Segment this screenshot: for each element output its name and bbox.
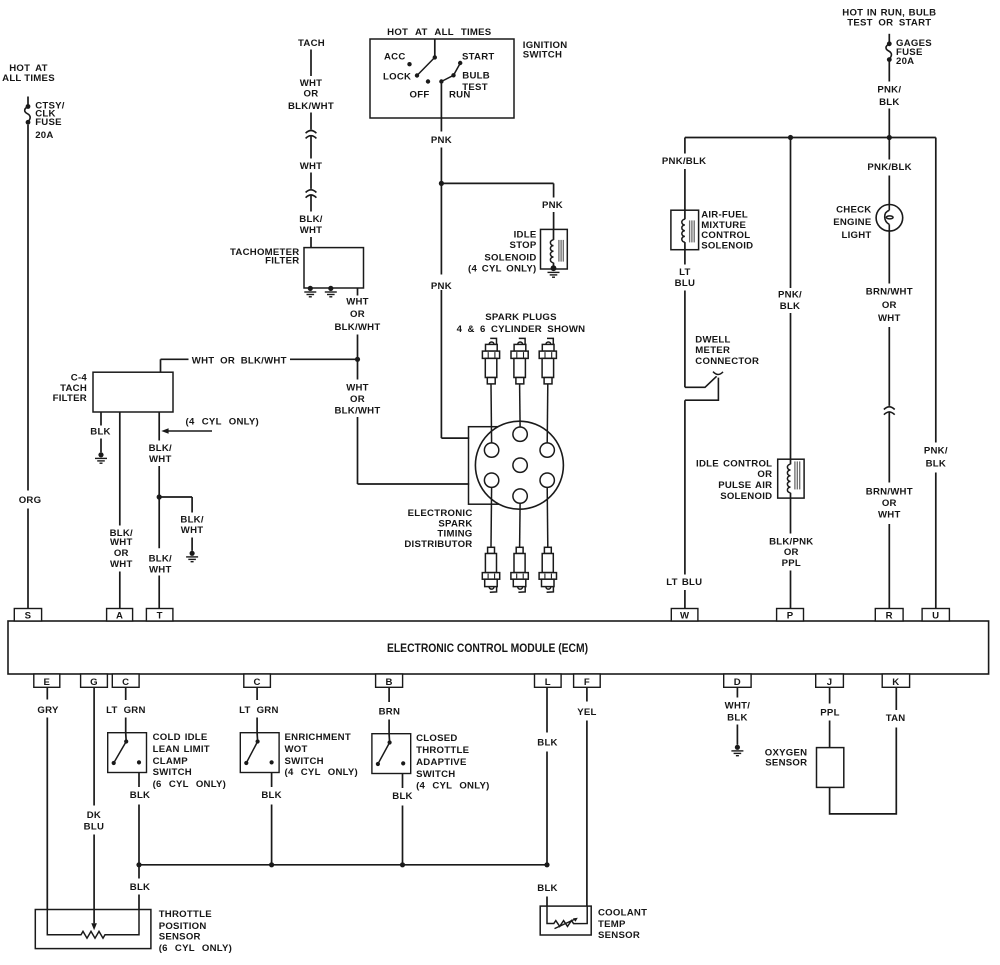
svg-text:BLK/WHT: BLK/WHT <box>335 322 381 333</box>
label PNK/BLK (idle control) <box>778 289 802 312</box>
svg-text:BLU: BLU <box>84 821 104 832</box>
svg-text:P: P <box>787 610 794 621</box>
label PNK (lower) <box>431 281 452 292</box>
wire BLK ground rail <box>139 864 547 866</box>
node TACH <box>298 38 325 49</box>
label BLK (C-4 ground) <box>90 427 110 438</box>
wire PNK/BLK fuse to rail <box>888 60 890 138</box>
note (4 CYL ONLY) with arrow <box>161 416 259 433</box>
node HOT AT ALL TIMES (battery feed, left) <box>2 63 55 84</box>
label PNK/BLK (fuse) <box>877 85 901 108</box>
ECM box <box>8 621 989 674</box>
svg-text:BLU: BLU <box>675 278 695 289</box>
coolant sensor thermistor <box>547 906 587 929</box>
svg-text:SPARK PLUGS: SPARK PLUGS <box>485 312 557 323</box>
svg-text:PPL: PPL <box>782 558 801 569</box>
ECM pin G (bottom 1) <box>81 674 108 688</box>
label YEL <box>577 707 596 718</box>
svg-text:HOT AT: HOT AT <box>9 63 48 74</box>
svg-text:SWITCH: SWITCH <box>416 769 455 780</box>
wire LT GRN pin C to WOT switch <box>256 687 258 732</box>
distributor body rect <box>469 427 519 505</box>
svg-text:WHT OR BLK/WHT: WHT OR BLK/WHT <box>192 355 287 366</box>
svg-text:WHT: WHT <box>878 313 901 324</box>
svg-text:CONTROL: CONTROL <box>701 230 750 241</box>
wire TAN oxygen sensor to ECM pin K <box>830 687 897 814</box>
svg-text:WHT: WHT <box>346 383 369 394</box>
spark plug wires (bottom) <box>491 487 548 547</box>
C-4 tach filter box <box>93 372 173 412</box>
ECM pin T (top) <box>146 609 173 622</box>
label TACHOMETER FILTER <box>230 247 299 267</box>
svg-text:BLK/: BLK/ <box>149 443 172 454</box>
wire BLK closed throttle to rail <box>402 774 404 865</box>
wire BLK (C-4 to ground) <box>100 412 102 452</box>
svg-text:SOLENOID: SOLENOID <box>484 253 536 264</box>
svg-text:G: G <box>90 677 98 688</box>
svg-text:BLK: BLK <box>90 427 110 438</box>
wire BRN/WHT OR WHT to ECM pin R <box>888 231 890 608</box>
svg-text:POSITION: POSITION <box>159 921 207 932</box>
label WHT <box>300 161 323 172</box>
svg-text:U: U <box>932 610 939 621</box>
label TEST <box>462 82 488 93</box>
svg-text:ENRICHMENT: ENRICHMENT <box>285 732 351 743</box>
label LT GRN (cold idle) <box>106 705 146 716</box>
label IGNITION SWITCH <box>523 40 568 61</box>
label ELECTRONIC CONTROL MODULE (ECM) <box>387 641 588 655</box>
label PNK/BLK (air-fuel) <box>662 156 706 167</box>
label PNK (branch) <box>542 200 563 211</box>
dwell meter connector <box>685 372 723 401</box>
svg-text:BLK: BLK <box>879 97 899 108</box>
svg-text:WOT: WOT <box>285 744 308 755</box>
label IDLE STOP SOLENOID (4 CYL ONLY) <box>468 229 537 274</box>
ECM pin S (top) <box>14 609 41 622</box>
svg-text:SWITCH: SWITCH <box>285 756 324 767</box>
label DWELL METER CONNECTOR <box>695 334 759 367</box>
fuse CTSY/CLK FUSE 20A <box>25 97 31 125</box>
svg-text:STOP: STOP <box>510 240 537 251</box>
wire DK BLU pin G to TPS wiper <box>93 687 95 923</box>
svg-text:BLK: BLK <box>261 790 281 801</box>
closed throttle adaptive switch <box>372 734 411 774</box>
idle stop solenoid box <box>541 229 568 269</box>
junction dot (PNK) <box>439 181 444 186</box>
ground (tach filter right) <box>325 286 337 297</box>
svg-text:PULSE AIR: PULSE AIR <box>718 480 772 491</box>
wire PNK ignition to distributor <box>441 82 469 439</box>
svg-text:LT GRN: LT GRN <box>106 705 146 716</box>
svg-text:PNK/: PNK/ <box>877 85 901 96</box>
svg-text:ELECTRONIC: ELECTRONIC <box>408 508 473 519</box>
idle control solenoid coil <box>787 459 799 498</box>
arrowhead DK BLU wiper <box>91 923 97 930</box>
svg-text:BLK: BLK <box>926 458 946 469</box>
label LOCK <box>383 71 411 82</box>
svg-text:METER: METER <box>695 345 730 356</box>
label ORG <box>19 495 42 506</box>
wire PNK branch to idle stop solenoid <box>441 183 553 229</box>
wire WHT OR BLK/WHT to distributor <box>358 359 470 484</box>
svg-text:TEMP: TEMP <box>598 919 626 930</box>
svg-text:W: W <box>680 610 690 621</box>
svg-text:BRN/WHT: BRN/WHT <box>866 486 913 497</box>
svg-text:LOCK: LOCK <box>383 71 411 82</box>
wire WHT from filter to rail <box>357 288 359 359</box>
label ENRICHMENT WOT SWITCH (4 CYL ONLY) <box>285 732 358 778</box>
svg-text:PNK: PNK <box>431 135 452 146</box>
svg-text:IDLE CONTROL: IDLE CONTROL <box>696 458 772 469</box>
svg-text:CONNECTOR: CONNECTOR <box>695 356 759 367</box>
svg-text:OR: OR <box>350 309 365 320</box>
svg-text:LT GRN: LT GRN <box>239 705 279 716</box>
ground (branch) <box>186 551 198 562</box>
svg-text:FUSE: FUSE <box>35 117 62 128</box>
junction dot (cold idle) <box>136 862 141 867</box>
wire BRN pin B to closed throttle switch <box>388 687 390 733</box>
wire LT BLU to dwell connector <box>684 250 686 388</box>
svg-text:PNK/BLK: PNK/BLK <box>662 156 706 167</box>
svg-text:SOLENOID: SOLENOID <box>701 241 753 252</box>
svg-text:BLK: BLK <box>392 791 412 802</box>
svg-text:4 & 6 CYLINDER SHOWN: 4 & 6 CYLINDER SHOWN <box>457 324 586 335</box>
svg-text:CLAMP: CLAMP <box>153 756 189 767</box>
throttle position sensor box <box>35 910 151 949</box>
wire TACH to tachometer filter <box>310 50 312 248</box>
svg-text:BLK/: BLK/ <box>149 553 172 564</box>
label BLK/PNK OR PPL <box>769 536 813 569</box>
label COLD IDLE LEAN LIMIT CLAMP SWITCH (6 CYL ONLY) <box>153 732 226 790</box>
svg-text:B: B <box>386 677 393 688</box>
wire BLK WOT to rail <box>271 773 273 865</box>
inline connector (tach upper) <box>306 131 317 139</box>
distributor cap circle <box>475 421 563 509</box>
coolant temp sensor box <box>540 906 591 935</box>
svg-text:BRN/WHT: BRN/WHT <box>866 287 913 298</box>
svg-text:BLK/WHT: BLK/WHT <box>335 405 381 416</box>
svg-text:BLK: BLK <box>727 713 747 724</box>
air-fuel solenoid coil <box>682 210 694 250</box>
svg-text:PNK/: PNK/ <box>924 445 948 456</box>
ECM pin L (bottom 5) <box>535 674 562 688</box>
svg-text:BLK: BLK <box>537 883 557 894</box>
svg-text:(4 CYL ONLY): (4 CYL ONLY) <box>186 416 259 427</box>
svg-text:WHT: WHT <box>878 509 901 520</box>
svg-text:WHT: WHT <box>110 559 133 570</box>
ground (tach filter left) <box>304 286 316 297</box>
svg-text:OR: OR <box>757 469 772 480</box>
wire LT GRN pin C to cold idle switch <box>125 687 127 732</box>
svg-text:BLK: BLK <box>780 301 800 312</box>
spark plug 2 (top middle) <box>511 338 528 384</box>
label WHT OR BLK/WHT (below filter) <box>335 297 381 333</box>
distributor towers <box>484 427 554 503</box>
wire rail PNK/BLK <box>685 137 936 139</box>
spark plug 6 (bottom right) <box>539 547 556 592</box>
label BLK/WHT (lower) <box>149 553 172 575</box>
air-fuel mixture control solenoid box <box>671 210 699 250</box>
ECM pin D (bottom 7) <box>724 674 751 688</box>
label AIR-FUEL MIXTURE CONTROL SOLENOID <box>701 209 753 251</box>
svg-text:WHT: WHT <box>300 225 323 236</box>
svg-text:20A: 20A <box>896 56 914 67</box>
label PNK/BLK (pin U) <box>924 445 948 469</box>
svg-text:ENGINE: ENGINE <box>833 217 872 228</box>
svg-text:E: E <box>43 677 50 688</box>
svg-text:WHT: WHT <box>300 161 323 172</box>
svg-text:OR: OR <box>882 300 897 311</box>
svg-text:S: S <box>25 610 32 621</box>
label CLOSED THROTTLE ADAPTIVE SWITCH (4 CYL ONLY) <box>416 733 489 791</box>
label BLK/WHT (tach lower) <box>299 214 322 236</box>
svg-text:SWITCH: SWITCH <box>153 767 192 778</box>
label BLK (rail to TPS) <box>130 882 150 893</box>
wire BLK/WHT OR WHT to ECM pin A <box>119 412 121 609</box>
wire GRY pin E to TPS <box>46 687 48 909</box>
ECM pin E (bottom 0) <box>34 674 60 688</box>
svg-text:FILTER: FILTER <box>265 256 299 267</box>
label ELECTRONIC SPARK TIMING DISTRIBUTOR <box>404 508 472 550</box>
idle stop solenoid coil <box>550 229 563 266</box>
svg-text:BLK/: BLK/ <box>299 214 322 225</box>
enrichment WOT switch <box>240 733 279 773</box>
wire PNK/BLK to ECM pin U <box>935 138 937 609</box>
wire branch to ground <box>159 497 192 551</box>
svg-text:WHT: WHT <box>110 537 133 548</box>
node HOT AT ALL TIMES (ignition) <box>387 27 492 38</box>
label BRN/WHT OR WHT (lower) <box>866 486 913 520</box>
ECM pin F (bottom 6) <box>574 674 601 688</box>
wire PNK/BLK to idle control solenoid <box>790 138 792 460</box>
label WHT OR BLK/WHT (to distributor) <box>335 383 381 417</box>
label CHECK ENGINE LIGHT <box>833 205 872 241</box>
label THROTTLE POSITION SENSOR (6 CYL ONLY) <box>159 909 232 954</box>
wire PNK/BLK to check engine light <box>888 138 890 205</box>
ignition switch internals <box>407 39 462 84</box>
wire BLK cold idle to rail <box>138 773 140 865</box>
ignition switch box <box>370 39 514 118</box>
label SPARK PLUGS 4 & 6 CYLINDER SHOWN <box>457 312 586 335</box>
svg-text:TIMING: TIMING <box>437 529 472 540</box>
spark plug 4 (bottom left) <box>482 547 499 592</box>
svg-text:(4 CYL ONLY): (4 CYL ONLY) <box>285 767 358 778</box>
label LT BLU (upper) <box>675 267 695 289</box>
svg-text:TACH: TACH <box>298 38 325 49</box>
svg-text:(6 CYL ONLY): (6 CYL ONLY) <box>153 779 226 790</box>
svg-text:OR: OR <box>882 498 897 509</box>
svg-text:SENSOR: SENSOR <box>159 932 201 943</box>
svg-text:THROTTLE: THROTTLE <box>416 745 470 756</box>
svg-text:L: L <box>545 677 551 688</box>
svg-text:ORG: ORG <box>19 495 42 506</box>
label GAGES FUSE 20A <box>896 38 932 67</box>
label BULB <box>462 71 490 82</box>
wire rail to C-4 filter <box>160 359 162 372</box>
node HOT IN RUN, BULB TEST OR START <box>842 8 936 29</box>
svg-text:SWITCH: SWITCH <box>523 49 562 60</box>
label CTSY/CLK FUSE 20A <box>35 100 65 141</box>
svg-text:LT: LT <box>679 267 691 278</box>
junction dot (coolant) <box>544 862 549 867</box>
ECM pin J (bottom 8) <box>816 674 844 688</box>
label BLK (closed throttle) <box>392 791 412 802</box>
inline connector (BRN/WHT) <box>884 407 895 415</box>
svg-text:OR: OR <box>304 89 319 100</box>
svg-text:DWELL: DWELL <box>695 334 730 345</box>
svg-text:DISTRIBUTOR: DISTRIBUTOR <box>404 539 472 550</box>
wire PNK/BLK to air-fuel solenoid <box>684 138 686 211</box>
label BLK (WOT) <box>261 790 281 801</box>
svg-text:C: C <box>254 677 261 688</box>
label BLK (coolant) <box>537 883 557 894</box>
svg-text:COOLANT: COOLANT <box>598 908 647 919</box>
svg-text:START: START <box>462 52 495 63</box>
ground (C-4) <box>95 452 107 463</box>
wire BLK rail to TPS <box>138 865 140 910</box>
svg-text:WHT: WHT <box>346 297 369 308</box>
ECM pin R (top) <box>875 609 903 622</box>
ECM pin A (top) <box>107 609 133 622</box>
junction dot (rail P) <box>788 135 793 140</box>
svg-text:LEAN LIMIT: LEAN LIMIT <box>153 744 210 755</box>
label LT BLU (lower) <box>666 577 702 588</box>
svg-text:SOLENOID: SOLENOID <box>720 491 772 502</box>
wire BLK/PNK OR PPL to ECM pin P <box>790 498 792 608</box>
junction dot (BLK/WHT branch) <box>157 494 162 499</box>
svg-text:J: J <box>827 677 833 688</box>
svg-text:D: D <box>734 677 741 688</box>
svg-text:AIR-FUEL: AIR-FUEL <box>701 209 748 220</box>
label BRN <box>379 707 401 718</box>
svg-text:COLD IDLE: COLD IDLE <box>153 732 208 743</box>
svg-text:20A: 20A <box>35 130 53 141</box>
fuse GAGES FUSE 20A <box>886 34 892 62</box>
svg-text:HOT AT ALL TIMES: HOT AT ALL TIMES <box>387 27 492 38</box>
spark plug 1 (top left) <box>482 338 499 384</box>
svg-text:WHT: WHT <box>149 565 172 576</box>
label WHT/BLK <box>725 701 751 724</box>
wire YEL pin F to coolant sensor <box>586 687 588 906</box>
label DK BLU <box>84 810 104 832</box>
label START <box>462 52 495 63</box>
spark plug 3 (top right) <box>539 338 556 384</box>
svg-text:SENSOR: SENSOR <box>765 758 807 769</box>
ECM pin C (bottom 2) <box>112 674 139 688</box>
svg-text:K: K <box>892 677 899 688</box>
label BLK/WHT OR WHT <box>110 528 133 570</box>
ECM pin U (top) <box>922 609 949 622</box>
svg-text:FILTER: FILTER <box>53 393 87 404</box>
wire rail WHT OR BLK/WHT <box>161 358 358 360</box>
label OXYGEN SENSOR <box>765 747 808 768</box>
svg-text:RUN: RUN <box>449 90 471 101</box>
label RUN <box>449 90 471 101</box>
svg-text:OR: OR <box>114 548 129 559</box>
label ACC <box>384 51 406 62</box>
spark plug wires (top) <box>491 384 548 443</box>
wire BLK pin L to coolant sensor <box>546 687 548 906</box>
svg-text:LT BLU: LT BLU <box>666 577 702 588</box>
svg-text:PNK: PNK <box>431 281 452 292</box>
ECM pin B (bottom 4) <box>376 674 403 688</box>
label BLK/WHT (upper) <box>149 443 172 465</box>
ECM pin K (bottom 9) <box>882 674 909 688</box>
label BLK (pin L) <box>537 738 557 749</box>
idle control solenoid box <box>778 459 804 498</box>
svg-text:TEST OR START: TEST OR START <box>847 18 931 29</box>
ground (idle stop) <box>548 265 560 277</box>
svg-text:R: R <box>886 610 893 621</box>
wire BLK/WHT to ECM pin T <box>158 412 160 609</box>
svg-text:WHT/: WHT/ <box>725 701 751 712</box>
label C-4 TACH FILTER <box>53 372 88 404</box>
label TAN <box>886 713 906 724</box>
ground (pin D) <box>731 745 743 756</box>
svg-text:CHECK: CHECK <box>836 205 871 216</box>
ECM pin C (bottom 3) <box>244 674 271 688</box>
svg-text:PNK/: PNK/ <box>778 289 802 300</box>
label BLK (cold idle) <box>130 790 150 801</box>
svg-text:C-4: C-4 <box>71 372 88 383</box>
svg-text:PPL: PPL <box>820 707 839 718</box>
svg-text:BLK: BLK <box>130 882 150 893</box>
check engine light bulb <box>876 205 903 232</box>
svg-text:OR: OR <box>350 394 365 405</box>
label WHT OR BLK/WHT (tach top) <box>288 78 334 112</box>
svg-text:OFF: OFF <box>410 90 430 101</box>
svg-text:(6 CYL ONLY): (6 CYL ONLY) <box>159 943 232 954</box>
svg-text:CLOSED: CLOSED <box>416 733 457 744</box>
ECM pin W (top) <box>671 609 698 622</box>
junction dot (rail/tach) <box>355 357 360 362</box>
svg-text:T: T <box>157 610 163 621</box>
label GRY <box>37 705 59 716</box>
label IDLE CONTROL OR PULSE AIR SOLENOID <box>696 458 772 502</box>
svg-text:BLK: BLK <box>130 790 150 801</box>
label COOLANT TEMP SENSOR <box>598 908 647 941</box>
svg-text:WHT: WHT <box>181 525 204 536</box>
cold idle lean limit clamp switch <box>108 733 147 773</box>
svg-text:TAN: TAN <box>886 713 906 724</box>
svg-text:IDLE: IDLE <box>514 229 537 240</box>
svg-text:ALL TIMES: ALL TIMES <box>2 73 55 84</box>
svg-text:BLK/PNK: BLK/PNK <box>769 536 813 547</box>
wire PPL pin J to oxygen sensor <box>829 687 831 747</box>
TPS internal resistor <box>47 910 139 939</box>
label PNK (upper) <box>431 135 452 146</box>
wire LT BLU to ECM pin W <box>684 400 686 608</box>
svg-text:ACC: ACC <box>384 51 406 62</box>
svg-text:C: C <box>122 677 129 688</box>
label LT GRN (WOT) <box>239 705 279 716</box>
label OFF <box>410 90 430 101</box>
wire ORG fuse to ECM pin S <box>27 125 29 609</box>
svg-text:BRN: BRN <box>379 707 401 718</box>
svg-text:WHT: WHT <box>300 78 323 89</box>
svg-text:(4 CYL ONLY): (4 CYL ONLY) <box>468 264 536 275</box>
svg-text:BULB: BULB <box>462 71 490 82</box>
svg-text:ELECTRONIC CONTROL MODULE (ECM: ELECTRONIC CONTROL MODULE (ECM) <box>387 641 588 655</box>
junction dot (closed throttle) <box>400 862 405 867</box>
label BLK/WHT (branch) <box>180 514 203 536</box>
inline connector (tach lower) <box>306 190 317 198</box>
junction dot (rail R) <box>887 135 892 140</box>
spark plug 5 (bottom middle) <box>511 547 528 592</box>
label PPL <box>820 707 839 718</box>
svg-text:WHT: WHT <box>149 454 172 465</box>
svg-text:YEL: YEL <box>577 707 596 718</box>
